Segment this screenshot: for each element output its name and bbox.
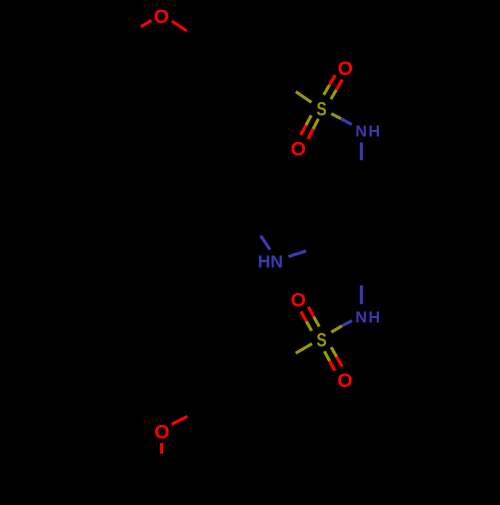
svg-text:NH: NH [355,309,381,326]
bond S=O upper-left bottom line1 red half [301,312,306,322]
svg-text:NH: NH [355,124,381,141]
bond S=O lower-left line1 red half [301,125,306,135]
bond S=O upper-right line1 red half [329,75,335,85]
bond N-C top (blue half, vertical) [360,142,363,160]
bond S=O upper-right line1 olive half [324,85,330,95]
bond S=O lower-left line2 red half [308,129,313,139]
bond O-CH3 (top methoxy, red half) [141,20,152,27]
svg-text:S: S [317,100,327,121]
bond S-N top (olive half) [331,114,341,119]
svg-text:O: O [291,289,306,311]
bond S=O lower-left line2 olive half [313,119,318,129]
bond S=O upper-left bottom line1 olive half [306,321,311,331]
svg-text:O: O [154,422,169,444]
bond S=O lower-left line1 olive half [306,115,311,125]
bond S-N top (blue half) [341,119,352,125]
bond S-N bottom (olive half) [331,326,342,332]
bond O-C(aryl) bottom methoxy (red half) [172,416,188,424]
bond N-C bottom (blue half, vertical) [360,285,363,304]
bond S=O upper-right line2 red half [336,80,342,90]
bond S=O lower-right line2 olive half [331,347,337,357]
svg-text:HN: HN [258,252,283,272]
bond S=O upper-left bottom line2 red half [308,307,314,317]
bond S=O lower-right line2 red half [337,357,343,367]
svg-text:O: O [291,139,306,161]
bond S-N bottom (blue half) [342,321,352,326]
bond S-C(aryl) top (olive half) [296,92,312,103]
svg-text:O: O [337,370,352,392]
bond S=O lower-right line1 olive half [324,351,329,361]
bond O-CH3 bottom methoxy (red half, vertical) [160,443,163,454]
svg-text:O: O [338,58,353,80]
svg-text:O: O [154,6,169,28]
bond S-C(aryl) bottom (olive half) [296,344,312,354]
bond S=O upper-right line2 olive half [331,90,336,99]
bond S=O lower-right line1 red half [330,361,335,371]
bond N-C7a central (blue half, right) [288,251,306,257]
bond S=O upper-left bottom line2 olive half [314,317,319,327]
svg-text:S: S [317,330,327,351]
bond N-C2 central (blue half, up-left) [261,236,270,250]
bond O-C(aryl) (top methoxy, red half) [172,21,187,31]
